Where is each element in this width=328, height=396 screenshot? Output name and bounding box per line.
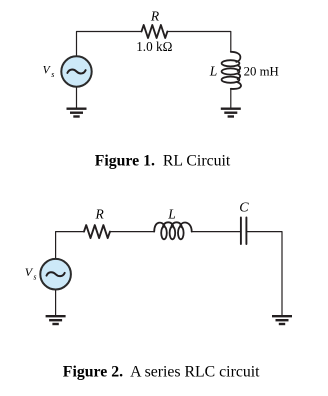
wire fig1 resistor to top-right corner bbox=[167, 32, 230, 53]
wire fig2 source to ground bbox=[55, 290, 57, 316]
resistor R1 fig1 bbox=[142, 25, 168, 38]
svg-text:1.0 kΩ: 1.0 kΩ bbox=[136, 39, 172, 54]
ground fig1 under inductor bbox=[221, 109, 241, 117]
svg-text:Vs: Vs bbox=[25, 265, 37, 282]
ground fig1 under source bbox=[67, 109, 87, 117]
svg-text:L: L bbox=[209, 64, 218, 79]
svg-text:C: C bbox=[239, 201, 249, 216]
inductor L2 fig2 coil bbox=[154, 222, 192, 239]
ground fig2 right branch bbox=[272, 316, 292, 324]
voltage source VS2 fig2 bbox=[40, 259, 71, 290]
wire fig1 source to top-left corner bbox=[77, 32, 142, 57]
svg-text:R: R bbox=[95, 207, 105, 222]
wire fig2 capacitor to right corner down to ground bbox=[246, 232, 282, 315]
svg-text:Vs: Vs bbox=[43, 64, 55, 79]
wire fig1 inductor to ground bbox=[230, 89, 232, 108]
svg-text:Figure 2. A series RLC circui: Figure 2. A series RLC circuit bbox=[63, 363, 260, 380]
capacitor C1 plates fig2 bbox=[240, 218, 242, 245]
svg-text:20 mH: 20 mH bbox=[244, 65, 279, 79]
ground fig2 under source bbox=[46, 316, 66, 324]
svg-text:L: L bbox=[167, 206, 176, 221]
inductor L1 fig1 coil bbox=[222, 52, 241, 89]
resistor R2 fig2 bbox=[84, 225, 110, 238]
wire fig2 inductor to capacitor bbox=[192, 231, 241, 233]
wire fig1 source to ground bbox=[76, 87, 78, 108]
svg-text:Figure 1. RL Circuit: Figure 1. RL Circuit bbox=[95, 153, 231, 170]
wire fig2 resistor to inductor bbox=[110, 231, 154, 233]
voltage source VS1 fig1 bbox=[61, 56, 91, 86]
wire fig2 source to top-left corner bbox=[56, 232, 84, 259]
svg-text:R: R bbox=[150, 8, 160, 23]
